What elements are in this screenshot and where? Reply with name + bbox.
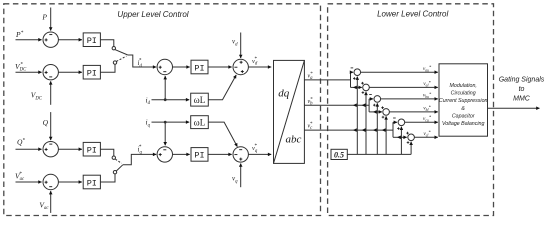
wire J5 to PI (58, 148, 82, 150)
wire switch to J7 : i_q* (123, 144, 156, 165)
wire 0.5 feed to Lb (385, 116, 387, 154)
wire i_d branch up to J3 (164, 76, 166, 100)
svg-text:to: to (519, 86, 525, 93)
svg-text:abc: abc (286, 134, 302, 146)
summing junction J6 (Vac) (43, 174, 58, 189)
svg-text:Upper Level Control: Upper Level Control (117, 10, 188, 19)
switch dashed alternative (q) (115, 159, 121, 163)
summing junction J2 (VDC) (43, 65, 58, 80)
wire J2 to PI (58, 71, 82, 73)
lower level control dashed box (328, 4, 494, 216)
summing junction J4 (vd*) (233, 59, 248, 74)
wire 0.5 feed to Ua (356, 77, 358, 155)
wire i_q input (146, 118, 190, 129)
wire B6 to switch lower contact (q) (100, 174, 115, 182)
wire V_DC input (up) (31, 81, 51, 105)
summing junction J1 (P) (43, 32, 58, 47)
wire V_DC* input (15, 61, 42, 72)
wire B5 to switch upper contact (q) (100, 149, 113, 156)
svg-text:Current Suppression: Current Suppression (439, 98, 488, 104)
upper level control dashed box (4, 4, 321, 216)
wire Val* output (369, 80, 438, 88)
svg-text:PI: PI (194, 151, 204, 161)
wire v_d input (232, 33, 241, 59)
PI block B5 (83, 142, 100, 156)
switch contact lower (d) (113, 61, 116, 64)
svg-text:ωL: ωL (194, 118, 205, 128)
wire B2 to switch lower contact (100, 65, 115, 73)
node i_q branch (164, 121, 167, 124)
modulation block (439, 64, 488, 136)
svg-text:P: P (41, 13, 47, 22)
svg-text:Lower Level Control: Lower Level Control (377, 10, 448, 19)
svg-text:0.5: 0.5 (334, 151, 344, 160)
wire Vbu* output (381, 91, 438, 99)
summing junction Lb (lower arm b) (381, 106, 389, 118)
summing junction J8 (vq*) (233, 147, 248, 162)
svg-text:Voltage Balancing: Voltage Balancing (442, 121, 485, 127)
switch dashed alternative (d) (116, 56, 126, 61)
crossing arrows on v_c* line (353, 128, 386, 132)
PI block B3 (191, 60, 208, 74)
wire 0.5 feed to La (365, 92, 367, 155)
wire v_a splitter (351, 72, 362, 87)
svg-text:&: & (461, 106, 465, 112)
wire B3 to J4 (208, 66, 232, 68)
svg-text:PI: PI (87, 36, 97, 46)
svg-text:MMC: MMC (513, 96, 531, 103)
wire v_a* phase line (304, 72, 350, 81)
wire gating output (488, 77, 545, 109)
wire v_c* phase line (304, 122, 393, 131)
omega-L block 2 (191, 116, 209, 129)
wire Vcu* output (405, 115, 438, 123)
wire v_b splitter (369, 99, 382, 112)
switch contact lower (q) (113, 171, 116, 174)
summing junction La (lower arm a) (361, 82, 369, 94)
crossing arrow on v_al stub (353, 86, 357, 90)
wire 0.5 feed to Uc (400, 127, 402, 155)
svg-text:PI: PI (87, 69, 97, 79)
svg-text:PI: PI (87, 146, 97, 156)
wire B7 to J8 (208, 153, 232, 155)
switch contact upper (q) (112, 156, 115, 159)
wire Vcl* output (414, 130, 437, 138)
wire Vbl* output (389, 104, 437, 112)
wire P input (41, 8, 50, 31)
wire 0.5 feed to Lc (410, 142, 412, 155)
summing junction Lc (lower arm c) (406, 132, 414, 144)
wire B1 to switch upper contact (100, 40, 113, 47)
omega-L block 1 (191, 93, 209, 106)
0.5 gain block (331, 149, 347, 159)
svg-text:PI: PI (87, 178, 97, 188)
wire Q* input (16, 138, 42, 150)
svg-text:Modulation,: Modulation, (450, 83, 477, 89)
wire J6 to PI (58, 181, 82, 183)
svg-text:dq: dq (278, 88, 290, 100)
summing junction J5 (Q) (43, 142, 58, 157)
wire V_ac input (up) (39, 191, 50, 213)
PI block B1 (83, 33, 100, 47)
summing junction J7 (iq) (157, 147, 172, 162)
svg-text:Capacitor: Capacitor (452, 113, 475, 119)
crossing arrows on v_b* line (353, 103, 366, 107)
PI block B2 (83, 65, 100, 79)
dq/abc transformation block (274, 60, 305, 163)
switch contact upper (d) (112, 47, 115, 50)
svg-text:PI: PI (194, 63, 204, 73)
crossing arrow on v_cl stub (397, 136, 401, 140)
PI block B7 (191, 148, 208, 162)
wire i_q branch down to J7 (164, 122, 166, 145)
wire switch to J3 : i_d* (128, 55, 156, 69)
wire J8 to dq : v_q* (248, 143, 271, 154)
switch blade (d) (115, 50, 128, 55)
wire omega-L1 to J4 bottom (208, 75, 236, 100)
wire v_q input (up) (232, 164, 241, 188)
svg-text:Q: Q (43, 118, 49, 127)
wire J3 to PI B3 (173, 66, 190, 68)
wire v_c splitter (393, 122, 407, 137)
wire i_d input (146, 95, 190, 106)
node i_d branch (164, 98, 167, 101)
wire J1 to PI (58, 39, 82, 41)
summing junction Ub (upper arm b) (369, 95, 380, 107)
svg-text:ωL: ωL (194, 95, 205, 105)
wire 0.5 rail (347, 153, 411, 155)
wire 0.5 feed to Ub (376, 103, 378, 154)
wire Q input (43, 112, 51, 140)
wire v_b* phase line (304, 97, 369, 106)
summing junction Ua (upper arm a) (351, 68, 361, 80)
svg-text:Gating Signals: Gating Signals (499, 77, 545, 84)
wire omega-L2 to J8 top (208, 122, 237, 147)
wire P* input (15, 30, 42, 40)
PI block B6 (83, 175, 100, 189)
wire V_ac* input (15, 171, 42, 182)
crossing arrow on v_bl stub (373, 110, 377, 114)
switch blade (q) (116, 165, 123, 171)
wire J4 to dq : v_d* (248, 56, 271, 67)
wire Vau* output (361, 65, 438, 73)
summing junction Uc (upper arm c) (393, 118, 405, 130)
wire J7 to PI B7 (173, 153, 190, 155)
svg-text:Circulating: Circulating (451, 91, 476, 97)
summing junction J3 (id) (157, 59, 172, 74)
